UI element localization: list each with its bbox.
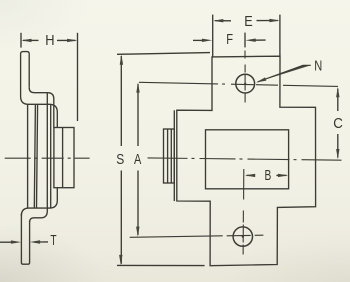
svg-text:E: E xyxy=(244,13,253,30)
front view: cross-shaped plate outline xyxy=(177,56,316,266)
svg-text:N: N xyxy=(314,58,322,75)
dim C: dimension line with arrows xyxy=(336,87,339,159)
dim E: right arrow xyxy=(257,19,280,22)
front view: main horizontal centerline xyxy=(148,158,344,160)
front view: bottom hole horizontal centerline / A extension xyxy=(130,235,264,237)
svg-text:S: S xyxy=(116,151,124,168)
front view: bottom hole xyxy=(233,227,252,246)
svg-text:B: B xyxy=(265,167,272,184)
front view: top hole horizontal centerline to C xyxy=(139,82,338,86)
front view: bottom hole center dot xyxy=(242,235,244,237)
dim H: right arrow xyxy=(57,39,77,42)
front view: top hole N xyxy=(236,74,255,93)
svg-text:T: T xyxy=(50,232,56,249)
svg-text:C: C xyxy=(333,115,343,132)
left view: boss rectangle xyxy=(54,128,74,188)
left view: bottom flange bar xyxy=(21,214,29,265)
dim S: dimension line with arrows xyxy=(119,54,123,265)
front view: window rectangle xyxy=(206,130,289,189)
left view: bottom bend outer S-curve xyxy=(21,188,57,216)
dim E: left arrow xyxy=(213,19,231,22)
front view: left edge outer double line xyxy=(173,110,175,201)
dim H: right extension line xyxy=(77,33,79,121)
dim E: left extension line xyxy=(212,15,214,57)
front view: top hole vertical centerline xyxy=(244,51,246,103)
dim A: dimension line with arrows xyxy=(136,82,140,237)
leader to N xyxy=(256,65,311,82)
left view: web line 2 xyxy=(34,104,35,208)
front view: bottom hole vertical centerline xyxy=(242,169,245,258)
svg-text:A: A xyxy=(134,151,141,168)
left view: web line 3 xyxy=(37,104,38,208)
front view: top hole center dot xyxy=(244,83,246,85)
dim F: left arrow outside xyxy=(193,39,212,42)
left view: top bend inner S-curve xyxy=(29,88,54,128)
dim S: bottom extension line xyxy=(117,264,205,266)
left view: horizontal centerline xyxy=(5,157,90,159)
left view: top flange bar outer edge and top xyxy=(21,52,30,97)
left view: top bend outer S-curve xyxy=(21,97,58,128)
dim H: left arrow xyxy=(21,39,38,42)
front view: side flange block inner line 1 xyxy=(167,129,169,183)
left view: bottom bend inner S-curve with web edge xyxy=(30,93,48,222)
dim F: tick at hole centerline xyxy=(244,33,246,48)
dim T: right arrow xyxy=(30,240,48,243)
dim F: right arrow outside xyxy=(245,39,265,42)
left view: web line 1 xyxy=(27,104,29,208)
dim S: top extension line xyxy=(117,53,210,55)
front view: side flange block xyxy=(164,129,175,183)
dim B: left arrow at hole centerline xyxy=(245,174,255,177)
front view: side flange block inner line 2 xyxy=(170,129,172,183)
dim T: left arrow xyxy=(0,240,21,243)
dim H: left extension tick xyxy=(20,33,22,48)
dim B: right arrow at window edge xyxy=(276,174,288,177)
svg-text:F: F xyxy=(226,31,233,48)
left view: web line 4 xyxy=(50,104,52,208)
svg-text:H: H xyxy=(45,32,54,49)
left view: boss inner line xyxy=(62,128,64,188)
dim E: right extension line xyxy=(279,15,281,57)
